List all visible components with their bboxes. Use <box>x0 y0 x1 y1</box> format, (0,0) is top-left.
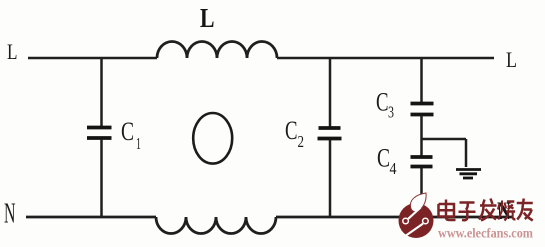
node: C3/C4 junction to earth <box>422 138 467 141</box>
wire bottom-right segment <box>276 216 513 219</box>
wire top-right segment <box>277 57 494 60</box>
svg-text:4: 4 <box>390 159 397 178</box>
svg-text:L: L <box>506 47 517 72</box>
wire C1 branch lower <box>100 139 103 217</box>
ground (earth symbol) <box>456 170 481 179</box>
circle symbol (center) <box>193 113 232 164</box>
svg-text:1: 1 <box>136 134 141 153</box>
watermark text: 电子发烧友 (simplified strokes) <box>439 199 533 221</box>
wire C1 branch upper <box>100 58 103 127</box>
svg-text:L: L <box>200 3 215 33</box>
capacitor C1 <box>87 128 112 139</box>
capacitor C2 <box>318 128 342 139</box>
wire top-left segment <box>28 57 157 60</box>
svg-text:N: N <box>4 199 16 230</box>
svg-text:C: C <box>376 88 389 117</box>
capacitor C4 <box>411 157 433 167</box>
svg-text:www.elecfans.com: www.elecfans.com <box>438 226 533 241</box>
wire C4 branch lower <box>420 168 423 218</box>
pad right <box>423 218 429 224</box>
circuit trace lower <box>406 224 423 236</box>
pad left <box>403 218 409 224</box>
svg-text:C: C <box>285 116 298 145</box>
wire C3 branch upper <box>420 58 423 103</box>
inductor L (top) <box>157 42 277 59</box>
wire C2 branch upper <box>329 58 332 127</box>
烧 <box>498 201 515 221</box>
子 <box>459 203 476 221</box>
inductor (bottom, unlabeled winding) <box>156 217 276 234</box>
svg-text:2: 2 <box>298 132 305 151</box>
capacitor C3 <box>411 104 434 115</box>
circuit trace to leaf <box>408 208 420 219</box>
svg-text:C: C <box>377 144 390 173</box>
svg-text:L: L <box>7 39 18 64</box>
wire ground drop <box>465 139 468 167</box>
svg-text:C: C <box>121 117 134 146</box>
友 <box>517 199 533 221</box>
发 <box>479 199 497 221</box>
wire C2 branch lower <box>329 140 332 217</box>
svg-text:3: 3 <box>388 103 394 122</box>
watermark logo: elecfans disc <box>399 193 434 238</box>
电 <box>439 200 456 221</box>
wire between C3 and C4 <box>420 116 423 157</box>
leaf <box>410 193 426 212</box>
wire bottom-left segment <box>26 216 156 219</box>
